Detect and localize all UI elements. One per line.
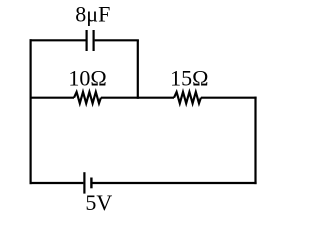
svg-text:10Ω: 10Ω (68, 65, 106, 90)
svg-text:8μF: 8μF (75, 2, 110, 27)
resistor R2 15 ohm (174, 92, 201, 103)
battery V1 5V (84, 172, 91, 193)
wire: top-left horizontal to capacitor (30, 39, 86, 41)
wire: middle right segment (201, 97, 257, 99)
resistor R1 10 ohm (74, 92, 101, 103)
wire: top-right horizontal from capacitor (95, 39, 139, 41)
wire: vertical drop from top loop to middle wire (137, 40, 139, 99)
wire: middle center segment (101, 97, 174, 99)
svg-text:15Ω: 15Ω (170, 65, 208, 90)
wire: bottom right segment (92, 182, 256, 184)
svg-text:5V: 5V (85, 190, 112, 215)
wire: right vertical branch (254, 97, 256, 185)
wire: left vertical branch (30, 39, 32, 184)
wire: bottom left segment (30, 182, 84, 184)
wire: middle left segment (31, 97, 74, 99)
capacitor C1 8uF (87, 30, 94, 51)
